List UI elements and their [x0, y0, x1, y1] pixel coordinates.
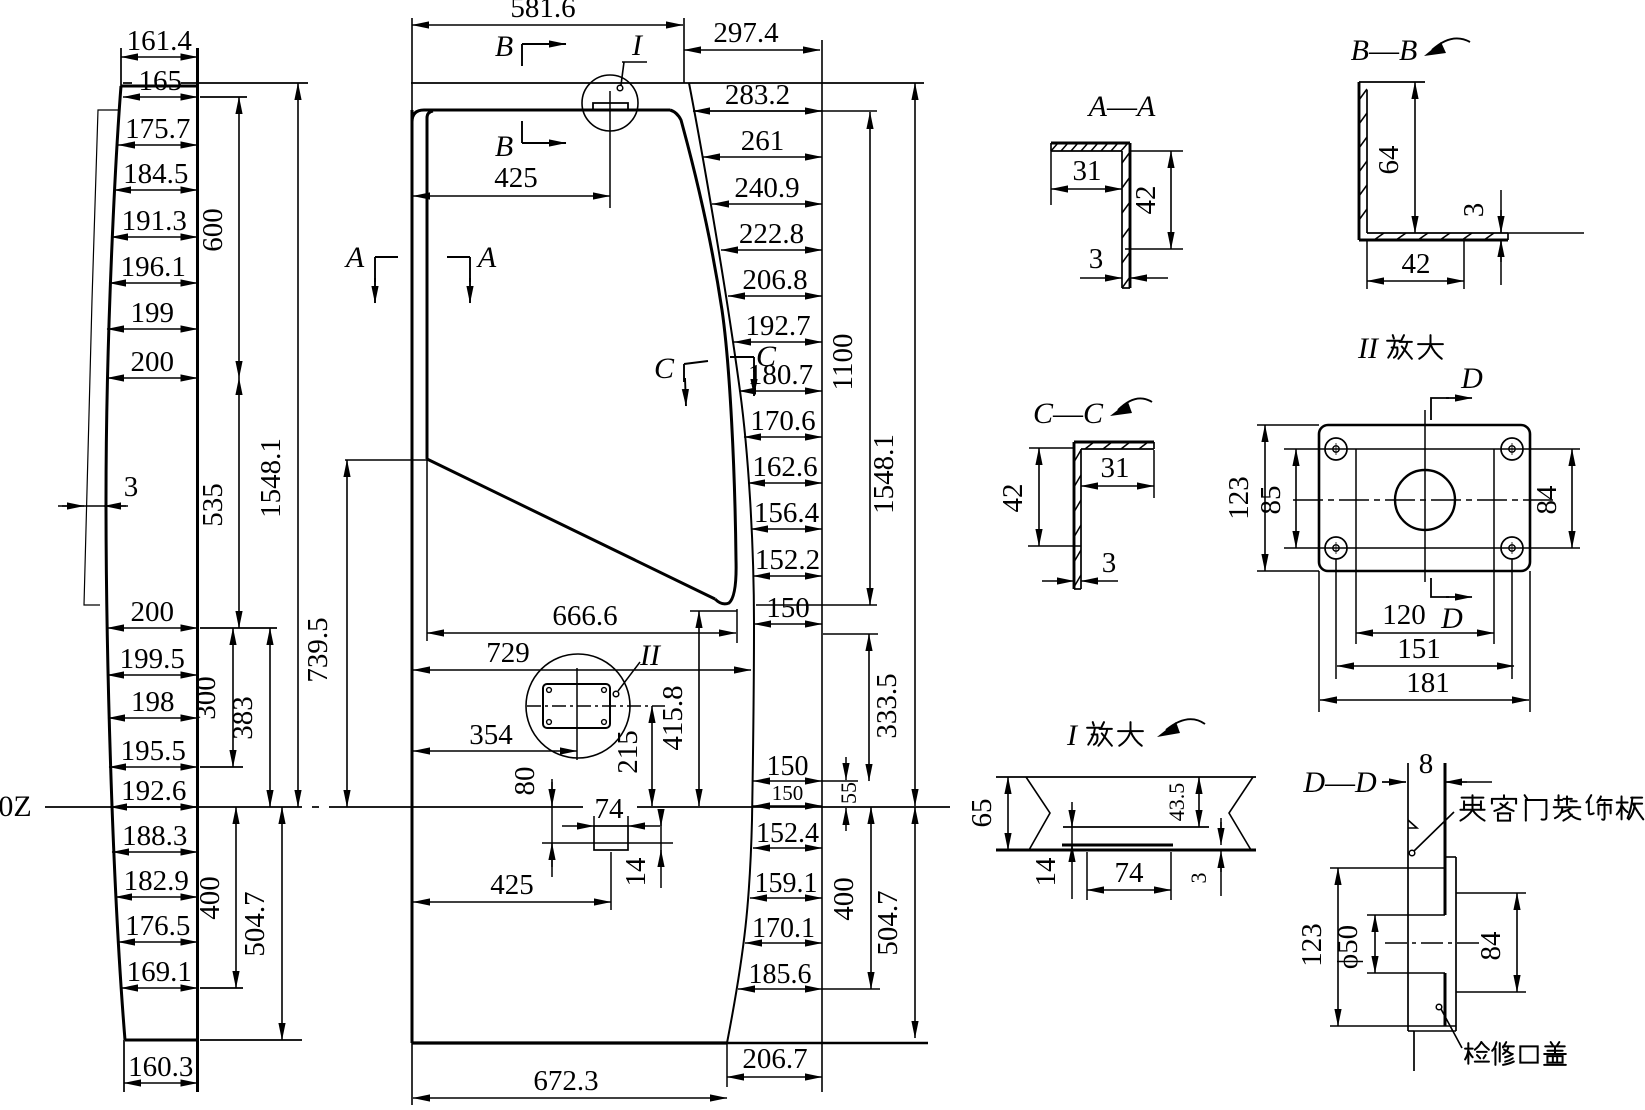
svg-text:182.9: 182.9	[124, 865, 189, 897]
dim row 261	[703, 156, 822, 158]
dim 739.5	[346, 460, 348, 807]
svg-text:42: 42	[997, 484, 1029, 513]
svg-text:206.8: 206.8	[742, 264, 807, 296]
svg-text:1100: 1100	[827, 334, 859, 391]
left view: width dim 160.3	[123, 1040, 125, 1092]
svg-text:184.5: 184.5	[123, 158, 188, 190]
svg-text:400: 400	[194, 876, 226, 920]
svg-text:739.5: 739.5	[302, 617, 334, 682]
svg-text:176.5: 176.5	[125, 910, 190, 942]
svg-text:729: 729	[486, 637, 530, 669]
svg-text:A: A	[344, 241, 365, 274]
left view: width dim 161.4	[120, 48, 122, 86]
section A-A ext	[1050, 151, 1052, 205]
section B-B hatching	[1359, 89, 1367, 100]
svg-text:31: 31	[1073, 155, 1102, 187]
svg-text:ϕ50: ϕ50	[1332, 925, 1364, 969]
svg-text:B—B: B—B	[1351, 34, 1418, 67]
left view: width dim 192.6	[110, 806, 198, 808]
svg-text:261: 261	[741, 125, 785, 157]
detail II dim 120	[1356, 632, 1494, 634]
section D-D outer panel line	[1407, 763, 1409, 1031]
detail I swing arrow	[1166, 719, 1205, 730]
svg-text:A—A: A—A	[1087, 90, 1156, 123]
horizontal centerline Z=0	[45, 806, 302, 808]
svg-text:1548.1: 1548.1	[255, 438, 287, 518]
svg-text:74: 74	[1115, 857, 1145, 889]
section D-D hole lines	[1367, 914, 1445, 916]
section A-A web	[1129, 143, 1132, 288]
section C-C dim 42 ext	[1028, 545, 1081, 547]
svg-text:504.7: 504.7	[872, 890, 904, 955]
dim row 156.4	[751, 528, 822, 530]
left view: vertical dim 535	[238, 378, 240, 628]
left view: strip outline (door edge profile)	[121, 85, 198, 88]
detail I dim 74	[1087, 889, 1171, 891]
svg-text:161.4: 161.4	[127, 25, 193, 57]
dim 729	[413, 669, 751, 671]
dim row 162.6	[748, 482, 822, 484]
svg-text:55: 55	[836, 782, 861, 804]
detail II hole rows	[1284, 448, 1580, 450]
center view: reference line z-top (y=83)	[411, 82, 924, 84]
left view: width dim 200	[107, 627, 198, 629]
svg-text:8: 8	[1419, 748, 1434, 780]
section C-C dim 31	[1081, 485, 1154, 487]
section C-C web	[1073, 442, 1076, 589]
dim 400 right	[870, 807, 872, 989]
svg-text:159.1: 159.1	[755, 868, 818, 899]
svg-text:425: 425	[494, 162, 538, 194]
detail II ext 123	[1257, 424, 1319, 426]
section B-B dim 42	[1367, 280, 1464, 282]
dim 14 slot	[660, 812, 662, 888]
detail I tab thick line	[1062, 844, 1173, 847]
extension 206.7 left	[726, 1043, 728, 1087]
detail II v-centerline	[1424, 410, 1426, 582]
left view: width dim 188.3	[112, 851, 198, 853]
svg-text:D: D	[1460, 362, 1483, 395]
detail I dim 74 ext	[1086, 852, 1088, 900]
detail II h-centerline	[1293, 499, 1556, 501]
dim row 170.1	[745, 942, 822, 944]
section A-A dim 42 ext	[1131, 150, 1183, 152]
left view: width dim 184.5	[114, 189, 198, 191]
center view: door outer right edge curve	[689, 83, 754, 1043]
svg-text:64: 64	[1373, 145, 1405, 175]
slot upper extensions	[593, 816, 595, 826]
section B-B web	[1358, 82, 1361, 240]
detail II dim 123	[1264, 425, 1266, 571]
detail II dim 85	[1295, 449, 1297, 548]
svg-text:156.4: 156.4	[754, 497, 820, 529]
center view: window sill diagonal	[427, 459, 715, 599]
left view: width dim 196.1	[109, 282, 198, 284]
section B-B swing arrow	[1432, 38, 1470, 50]
svg-text:181: 181	[1406, 667, 1450, 699]
detail II screws	[547, 688, 552, 693]
svg-text:188.3: 188.3	[122, 820, 187, 852]
extension 666.6 right	[736, 609, 738, 643]
detail II D marker top	[1431, 398, 1449, 420]
section A-A flange	[1051, 142, 1130, 145]
svg-text:504.7: 504.7	[239, 891, 271, 956]
left view: row extension for 400	[200, 987, 243, 989]
extension for 400 bottom	[822, 988, 880, 990]
dim row 150	[753, 780, 822, 782]
svg-text:120: 120	[1382, 599, 1426, 631]
detail II plate	[1319, 425, 1530, 571]
section D-D centerline	[1385, 942, 1481, 944]
svg-text:206.7: 206.7	[742, 1043, 807, 1075]
svg-text:II: II	[1357, 332, 1380, 365]
left view: inner thin profile line with end brackets	[84, 110, 118, 605]
detail I break right	[1229, 777, 1253, 850]
left view: width dim 195.5	[109, 766, 198, 768]
left view: bottom extension for 504.7	[200, 1039, 302, 1041]
left view: vertical dim 383	[269, 628, 271, 807]
leader label access cover	[1436, 1004, 1442, 1010]
detail II plate rect	[543, 684, 610, 728]
right reference line	[821, 40, 823, 1092]
svg-text:85: 85	[1255, 486, 1287, 515]
svg-text:170.1: 170.1	[752, 913, 815, 944]
section A-A hatching	[1051, 143, 1058, 151]
svg-text:74: 74	[595, 793, 625, 825]
svg-text:B: B	[495, 30, 513, 63]
detail I tab top line	[1063, 826, 1209, 828]
dim 80	[551, 779, 553, 877]
section A-A dim 42	[1170, 151, 1172, 249]
dim 354	[413, 750, 577, 752]
svg-text:581.6: 581.6	[510, 0, 575, 24]
dim 672.3	[413, 1097, 727, 1099]
svg-text:42: 42	[1130, 186, 1162, 215]
dim 74 slot	[562, 825, 594, 827]
detail II leader	[613, 691, 619, 697]
svg-text:42: 42	[1402, 248, 1431, 280]
detail I dim 14	[1071, 802, 1073, 899]
svg-text:123: 123	[1223, 476, 1255, 520]
svg-text:A: A	[476, 241, 497, 274]
svg-text:14: 14	[1030, 857, 1062, 887]
svg-text:200: 200	[131, 596, 175, 628]
left view: 600 top extension	[200, 96, 247, 98]
detail I leader	[617, 85, 623, 91]
extension 666.6 left	[426, 459, 428, 641]
detail II dim 181	[1320, 699, 1529, 701]
svg-text:169.1: 169.1	[127, 956, 192, 988]
svg-text:3: 3	[1458, 203, 1490, 218]
svg-text:535: 535	[197, 483, 229, 527]
svg-text:D: D	[1440, 602, 1463, 635]
slot rectangle	[594, 826, 628, 850]
svg-text:123: 123	[1296, 923, 1328, 967]
left view: vertical dim 600	[238, 97, 240, 378]
left view: width dim 200	[107, 377, 198, 379]
section B-B flange	[1359, 239, 1508, 242]
svg-text:415.8: 415.8	[657, 685, 689, 750]
svg-text:175.7: 175.7	[125, 113, 190, 145]
svg-text:II: II	[639, 639, 662, 672]
svg-text:354: 354	[469, 719, 513, 751]
detail II centerlines	[527, 705, 665, 707]
dim 215	[651, 706, 653, 806]
svg-text:C—C: C—C	[1033, 397, 1104, 430]
dim 55	[845, 757, 847, 780]
dim row 170.6	[744, 436, 822, 438]
svg-text:300: 300	[190, 676, 222, 720]
svg-text:C: C	[654, 352, 675, 385]
svg-text:3: 3	[1102, 547, 1117, 579]
svg-text:D—D: D—D	[1302, 766, 1377, 799]
dim 333.5	[868, 634, 870, 781]
bottom edge extension right	[727, 1042, 928, 1045]
dim row 152.2	[753, 575, 822, 577]
row 150 extension	[822, 780, 858, 782]
dim row 283.2	[693, 110, 822, 112]
svg-text:3: 3	[1186, 873, 1211, 884]
section C-C dim 42	[1038, 448, 1040, 546]
leader label decorative panel	[1409, 850, 1415, 856]
left view: row extensions for 300/383	[200, 627, 277, 629]
svg-text:215: 215	[612, 730, 644, 774]
svg-text:199: 199	[131, 297, 175, 329]
left view: plate thickness dim 3	[58, 505, 128, 507]
dim 425 top	[413, 195, 610, 197]
section D-D hole row lines	[1456, 892, 1526, 894]
left view: top reference line (row 165 / z-top)	[123, 82, 132, 84]
svg-text:192.7: 192.7	[745, 310, 810, 342]
svg-text:31: 31	[1101, 452, 1130, 484]
section A-A dim 31	[1051, 188, 1122, 190]
detail II inner verticals	[1355, 449, 1357, 644]
svg-text:0Z: 0Z	[0, 790, 32, 823]
section C-C swing arrow	[1118, 398, 1152, 410]
svg-text:151: 151	[1397, 633, 1441, 665]
dim 1548.1 right	[914, 83, 916, 806]
dim 206.7	[727, 1076, 822, 1078]
svg-text:240.9: 240.9	[734, 172, 799, 204]
dim row 185.6	[738, 988, 822, 990]
svg-text:150: 150	[767, 751, 809, 782]
left view: width dim 199.5	[107, 674, 198, 676]
dim row 206.8	[728, 295, 822, 297]
detail I strip outline	[996, 776, 1256, 778]
section D-D main panel line	[1444, 763, 1447, 915]
left view: vertical dim 400	[235, 807, 237, 988]
detail I dim 3	[1220, 818, 1222, 840]
svg-text:198: 198	[131, 686, 175, 718]
section A-A dim 3	[1080, 277, 1122, 279]
detail II dim 84	[1571, 449, 1573, 548]
svg-text:43.5: 43.5	[1164, 783, 1189, 822]
left view: width dim 182.9	[115, 896, 198, 898]
dim row 159.1	[750, 897, 822, 899]
svg-text:165: 165	[139, 65, 183, 97]
dim row 150	[753, 805, 822, 807]
svg-text:672.3: 672.3	[533, 1065, 598, 1097]
svg-text:222.8: 222.8	[739, 218, 804, 250]
left view: width dim 175.7	[118, 144, 198, 146]
svg-text:400: 400	[828, 877, 860, 921]
svg-text:1548.1: 1548.1	[868, 434, 900, 514]
detail I tab	[593, 103, 628, 110]
left view: vertical dim 300	[232, 628, 234, 767]
section B-B dim 64	[1414, 82, 1416, 233]
svg-text:152.4: 152.4	[756, 818, 819, 849]
dim row 150	[754, 623, 822, 625]
center view: door left edge	[411, 110, 414, 1043]
left view: width dim 199	[107, 328, 198, 330]
dim 297.4	[684, 49, 820, 51]
section D-D ext 123	[1330, 867, 1445, 869]
section B-B dim 3	[1500, 190, 1502, 233]
section D-D cover plate	[1455, 857, 1457, 1031]
section D-D dim phi50	[1374, 915, 1376, 973]
dim row 180.7	[739, 390, 822, 392]
svg-text:333.5: 333.5	[871, 673, 903, 738]
svg-text:170.6: 170.6	[750, 405, 815, 437]
svg-text:65: 65	[966, 799, 998, 828]
dim row 240.9	[712, 203, 822, 205]
section D-D dim 123	[1337, 868, 1339, 1026]
left view: width dim 169.1	[121, 987, 198, 989]
svg-text:297.4: 297.4	[713, 17, 779, 49]
detail II circle	[526, 654, 630, 758]
center view: window right edge curve	[670, 110, 736, 604]
dim row 222.8	[721, 249, 822, 251]
svg-text:425: 425	[490, 869, 534, 901]
extension for 1100 bottom	[756, 604, 877, 606]
svg-text:195.5: 195.5	[121, 735, 186, 767]
section C-C dim 3	[1042, 580, 1074, 582]
svg-text:180.7: 180.7	[748, 359, 813, 391]
svg-text:160.3: 160.3	[128, 1051, 193, 1083]
svg-text:14: 14	[620, 857, 652, 887]
dim 504.7 right	[914, 807, 916, 1038]
svg-text:80: 80	[509, 767, 541, 796]
svg-text:600: 600	[197, 208, 229, 252]
dim row 152.4	[753, 847, 822, 849]
svg-text:383: 383	[227, 696, 259, 740]
detail II dim 151	[1337, 665, 1514, 667]
svg-text:152.2: 152.2	[755, 544, 820, 576]
dim 666.6	[427, 632, 736, 634]
extension 415.8 top	[690, 610, 737, 612]
svg-text:3: 3	[1089, 243, 1104, 275]
svg-text:192.6: 192.6	[121, 775, 186, 807]
section C-C dim 31 ext	[1153, 450, 1155, 498]
center view: window sill extension left	[345, 459, 427, 461]
center view: window left edge	[427, 111, 433, 459]
center view: door top extension to right	[693, 110, 877, 112]
svg-text:196.1: 196.1	[121, 251, 186, 283]
svg-text:283.2: 283.2	[725, 79, 790, 111]
slot mid line	[542, 842, 673, 844]
dim 425 bottom	[413, 901, 611, 903]
detail I circle	[582, 75, 638, 131]
section B-B dim 42 ext	[1366, 241, 1368, 289]
svg-text:B: B	[495, 130, 513, 163]
section C-C hatching	[1085, 442, 1094, 449]
svg-text:185.6: 185.6	[749, 959, 812, 990]
svg-text:150: 150	[772, 781, 804, 805]
detail I dim 43.5	[1198, 777, 1200, 827]
detail I dim 65	[1007, 777, 1009, 850]
dim 415.8	[698, 611, 700, 806]
dim 581.6	[412, 24, 683, 26]
svg-text:84: 84	[1531, 485, 1563, 515]
svg-text:84: 84	[1475, 931, 1507, 961]
svg-text:3: 3	[124, 471, 139, 503]
detail II bolt col ext	[1335, 559, 1337, 679]
detail II center hole	[1395, 470, 1455, 530]
detail II D marker bottom	[1431, 578, 1449, 597]
left view: width dim 198	[108, 717, 198, 719]
section C-C flange	[1074, 441, 1154, 444]
left view: width dim 176.5	[118, 941, 198, 943]
svg-text:191.3: 191.3	[122, 205, 187, 237]
detail II plate side ext	[1318, 571, 1320, 712]
svg-text:666.6: 666.6	[552, 600, 617, 632]
extension for 333.5 top	[823, 633, 878, 635]
left view: vertical dim 504.7	[281, 807, 283, 1040]
dim 1100	[869, 112, 871, 605]
dim row 192.7	[734, 341, 822, 343]
detail II bolt holes	[1325, 438, 1347, 460]
detail I break left	[1026, 777, 1050, 850]
svg-text:199.5: 199.5	[120, 643, 185, 675]
svg-text:200: 200	[131, 346, 175, 378]
left view: width dim 191.3	[111, 236, 198, 238]
center view: door top edge with corner	[412, 110, 670, 122]
section D-D dim 84	[1516, 893, 1518, 992]
slot center extension	[610, 852, 612, 910]
svg-text:150: 150	[766, 592, 810, 624]
left view: width dim 165	[123, 96, 198, 98]
left view: vertical dim 1548.1	[297, 83, 299, 807]
center view: door bottom edge	[412, 1041, 727, 1044]
svg-text:162.6: 162.6	[752, 451, 817, 483]
